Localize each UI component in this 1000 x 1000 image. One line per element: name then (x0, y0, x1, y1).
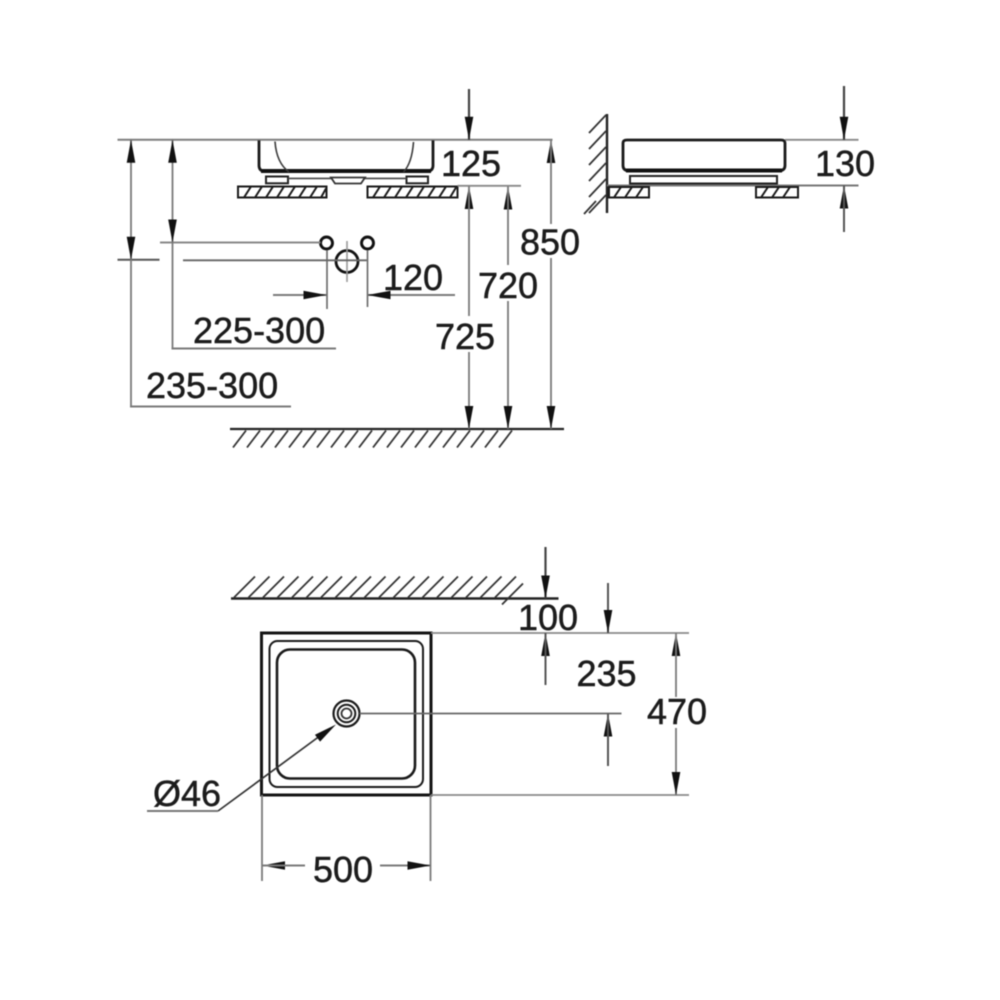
water level line upper (225-300) (160, 242, 321, 244)
dimension 850 line (547, 140, 556, 163)
dimension 235 bottom arrow (604, 714, 613, 737)
bowl inner curve left (275, 142, 289, 173)
basin inner rim (plan) (270, 641, 424, 787)
dimension 125 top arrow (468, 89, 470, 140)
svg-text:500: 500 (313, 849, 373, 890)
wall hatch (584, 115, 606, 214)
svg-text:Ø46: Ø46 (153, 773, 221, 814)
svg-text:850: 850 (520, 222, 580, 263)
svg-text:235-300: 235-300 (146, 365, 278, 406)
svg-text:125: 125 (441, 143, 501, 184)
svg-text:100: 100 (518, 597, 578, 638)
basin body side outline (623, 140, 785, 171)
right foot (407, 177, 429, 184)
counter top extension line to right (458, 185, 522, 187)
svg-text:130: 130 (815, 143, 875, 184)
counter hatched bar left (front view) (238, 187, 327, 198)
wall line (plan) (231, 597, 559, 599)
dimension 725 line (465, 186, 474, 209)
water level dash left (235-300) (118, 259, 160, 261)
rim extension line (side) (785, 139, 859, 141)
basin foot band (side) (630, 176, 777, 184)
dimension 225-300 vertical line (172, 140, 174, 349)
underside line between feet (288, 177, 331, 179)
counter hatched segment left (side) (609, 187, 649, 198)
225-300 underline (172, 348, 337, 350)
basin bottom thick edge (side) (626, 169, 782, 173)
drain inner circle (342, 709, 352, 719)
basin body front outline (259, 141, 433, 172)
dimension 100 bottom arrow (541, 633, 550, 656)
ground line (front view) (230, 428, 564, 430)
svg-text:720: 720 (478, 265, 538, 306)
plan bottom edge extension (431, 794, 689, 796)
ground hatch (233, 431, 512, 448)
dimension 120 left segment (273, 294, 327, 296)
dimension 235-300 vertical line (130, 140, 132, 407)
left foot (266, 177, 288, 184)
dimension 470 line (672, 633, 681, 656)
extension tick below right faucet hole (367, 250, 369, 307)
svg-text:725: 725 (435, 316, 495, 357)
faucet hole left (321, 237, 333, 249)
faucet hole right (362, 237, 374, 249)
dimension 130 top arrow (843, 86, 845, 140)
drain centerline to right (360, 713, 622, 715)
rim reference line (850 level) (118, 139, 553, 141)
faucet main hole (336, 251, 358, 273)
extension tick below left faucet hole (326, 250, 328, 309)
basin bowl edge (plan) (277, 650, 415, 779)
drain middle circle (338, 705, 356, 723)
drain fitting under basin (331, 178, 365, 184)
faucet centerline vertical (346, 241, 348, 282)
dimension 720 line (504, 187, 513, 210)
wall hatch (plan) (234, 577, 523, 605)
dimension 500 left arrow (262, 861, 285, 870)
dimension 500 left extension line (261, 795, 263, 881)
dimension 130 bottom arrow (840, 186, 849, 209)
dimension 120 right segment (368, 294, 456, 296)
dimension 235 top arrow (607, 583, 609, 633)
wall line (606, 114, 608, 213)
dimension 500 right arrow (380, 865, 431, 867)
svg-text:120: 120 (383, 257, 443, 298)
counter hatched segment right (side) (756, 187, 798, 198)
dimension 500 right extension line (430, 795, 432, 881)
water level line lower (235-300) (183, 259, 367, 261)
plan top edge extension (431, 632, 689, 634)
basin outer square (plan) (262, 633, 432, 795)
svg-text:225-300: 225-300 (193, 310, 325, 351)
counter line (side) (607, 185, 859, 187)
counter hatched bar right (front view) (368, 187, 458, 198)
Ø46 underline (147, 810, 218, 812)
svg-text:235: 235 (577, 653, 637, 694)
235-300 underline (130, 406, 291, 408)
dimension 100 top arrow (544, 547, 546, 599)
leader line Ø46 (218, 729, 330, 812)
svg-text:470: 470 (647, 691, 707, 732)
drain outer circle (334, 701, 360, 727)
bowl inner curve right (404, 142, 414, 172)
basin bottom thick edge (261, 169, 431, 173)
